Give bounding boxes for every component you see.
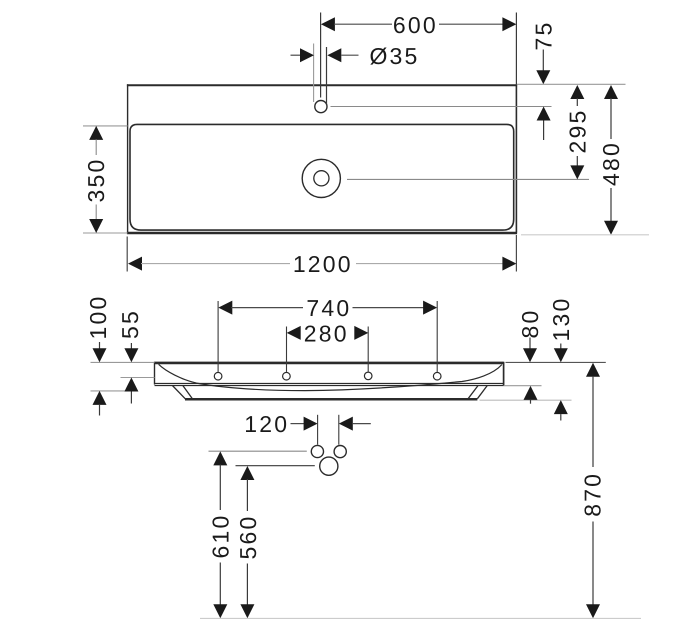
front view deck top edge — [154, 362, 503, 365]
svg-text:80: 80 — [517, 309, 543, 339]
svg-text:1200: 1200 — [293, 251, 353, 277]
svg-text:100: 100 — [85, 295, 111, 340]
plan view inner basin rounded rect — [130, 124, 514, 230]
floor line — [200, 617, 641, 619]
svg-text:740: 740 — [306, 295, 351, 321]
svg-text:350: 350 — [83, 158, 109, 203]
dimension 55 — [117, 309, 143, 403]
dimension 1200 — [127, 235, 516, 277]
dimension 480 — [598, 85, 624, 235]
bottom small circle left — [311, 445, 323, 457]
deck hole circle 3 — [364, 372, 372, 380]
bottom large circle — [320, 457, 338, 475]
front view basin interior curve — [159, 364, 502, 390]
deck hole circle 4 — [433, 372, 441, 380]
svg-text:480: 480 — [598, 141, 624, 186]
ext line 100 lower — [91, 390, 133, 392]
leader drain center — [236, 465, 315, 467]
svg-text:870: 870 — [580, 472, 606, 517]
svg-text:560: 560 — [235, 515, 261, 560]
svg-text:295: 295 — [564, 109, 590, 154]
ext line hole4 up — [436, 301, 438, 372]
svg-text:55: 55 — [117, 309, 143, 339]
svg-text:130: 130 — [548, 297, 574, 342]
svg-text:280: 280 — [304, 321, 349, 347]
ext line hole left tangent — [313, 44, 315, 103]
ext line 130 lower — [480, 399, 572, 401]
ext line hole center vertical — [320, 13, 322, 98]
bottom small circle right — [334, 446, 346, 458]
dimension 295 — [564, 85, 590, 179]
svg-text:600: 600 — [393, 12, 438, 38]
front view base right inner slant — [468, 386, 478, 399]
svg-text:120: 120 — [244, 411, 289, 437]
ext line hole2 up — [286, 327, 288, 372]
front view base left outer slant — [172, 386, 185, 399]
faucet hole circle — [315, 101, 327, 113]
leader small holes center — [209, 450, 307, 452]
front view left edge — [154, 362, 156, 385]
dimension 600 — [321, 12, 517, 84]
front view deck bottom line lower — [155, 385, 504, 387]
ext line hole right tangent — [326, 47, 328, 105]
front view deck bottom line upper — [155, 382, 504, 384]
front view base bottom edge — [185, 398, 477, 401]
svg-text:Ø35: Ø35 — [369, 43, 419, 69]
dimension 130 — [548, 297, 574, 421]
ext line sink bottom edge right (faint) — [521, 234, 649, 236]
front view base right outer slant — [477, 386, 487, 399]
dimension 740 — [218, 295, 437, 321]
ext line 55 lower — [121, 377, 155, 379]
dimension 280 — [287, 321, 369, 347]
plan view outer rect — [127, 84, 517, 233]
faucet hole leader line — [331, 106, 552, 108]
svg-text:75: 75 — [530, 21, 556, 51]
drain inner circle — [314, 171, 329, 186]
dimension Ø35 — [291, 43, 420, 69]
drain outer circle — [302, 159, 340, 197]
ext line hole3 up — [367, 327, 369, 372]
front view right edge — [503, 362, 505, 386]
dimension 870 — [580, 363, 606, 619]
front view base left inner slant — [183, 386, 194, 401]
dimension 100 — [85, 295, 111, 416]
deck hole circle 1 — [214, 372, 222, 380]
ext line hole1 up — [217, 301, 219, 372]
dimension 120 — [244, 411, 370, 445]
deck hole circle 2 — [283, 372, 291, 380]
ext line 80 lower — [504, 385, 542, 387]
dimension 75 — [530, 21, 556, 140]
dimension 560 — [235, 466, 261, 618]
ext line sink top edge right — [517, 83, 626, 85]
drain leader line — [347, 178, 589, 180]
svg-text:610: 610 — [208, 514, 234, 559]
dimension 610 — [208, 451, 234, 618]
dimension 350 — [83, 126, 128, 233]
ext line deck top right — [506, 361, 606, 363]
dimension 80 — [517, 309, 543, 404]
ext line deck top left — [91, 361, 155, 363]
